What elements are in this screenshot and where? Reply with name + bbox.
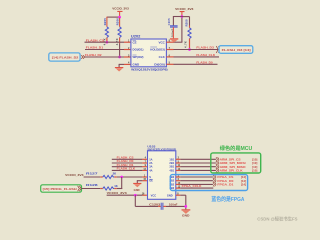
svg-text:GND: GND — [134, 189, 140, 192]
svg-text:3A: 3A — [149, 165, 152, 169]
svg-text:FPGA_D1: FPGA_D1 — [217, 183, 233, 187]
wire resistor A top lead — [106, 17, 108, 27]
wire power-left branch — [107, 16, 120, 18]
wire cap to gnd junction — [163, 205, 166, 207]
svg-text:FLASH_D1: FLASH_D1 — [86, 46, 104, 50]
svg-text:FLASH_CS: FLASH_CS — [86, 38, 105, 42]
svg-text:R127: R127 — [86, 172, 98, 176]
resistor R127 — [86, 172, 116, 179]
wire resistor B bottom lead to row3 — [119, 38, 121, 44]
wire 3B2 to FPGA_D1 — [176, 183, 181, 185]
svg-text:4A: 4A — [149, 168, 152, 172]
wire PROG_FLASH net — [82, 188, 100, 190]
svg-text:CE: CE — [133, 40, 137, 44]
port PROG_FLASH — [41, 185, 82, 192]
svg-text:FLASH_D3 [14]: FLASH_D3 [14] — [222, 48, 251, 52]
wire S net — [84, 176, 101, 178]
svg-text:FLASH_CS: FLASH_CS — [117, 155, 134, 159]
svg-text:HOLD(IO3): HOLD(IO3) — [150, 48, 165, 52]
svg-text:4.7K: 4.7K — [183, 41, 187, 48]
capacitor C1203 — [149, 202, 178, 209]
svg-text:FLASH_D2: FLASH_D2 — [85, 53, 102, 57]
svg-text:VCC: VCC — [151, 193, 157, 197]
svg-text:VCCIO_3V3: VCCIO_3V3 — [112, 7, 129, 11]
resistor R205 — [102, 18, 108, 46]
wire R208 bottom to row7 — [189, 39, 191, 50]
svg-text:GND: GND — [133, 63, 141, 67]
svg-text:VCCIO_3V3: VCCIO_3V3 — [107, 191, 127, 195]
svg-text:ARM_SPI_CLK: ARM_SPI_CLK — [220, 169, 244, 173]
port FLASH_D2 — [49, 53, 85, 61]
svg-text:R208: R208 — [184, 19, 188, 26]
capacitor C205 — [167, 18, 177, 37]
port ARM_SPI_MISO — [216, 165, 257, 169]
svg-text:FPGA_CCLK: FPGA_CCLK — [182, 184, 202, 188]
pin numbers U103 right — [177, 157, 181, 196]
wire PROG to S riser — [121, 177, 123, 189]
svg-text:S: S — [149, 175, 151, 179]
svg-text:W25Q128JVSIQ(SOP8): W25Q128JVSIQ(SOP8) — [131, 67, 168, 71]
port FPGA_CS — [213, 175, 246, 179]
wire FLASH_D2 row — [85, 56, 124, 58]
ground main — [182, 209, 191, 217]
port FPGA_D0 — [213, 179, 246, 183]
node junction right power — [181, 15, 184, 18]
svg-text:GND: GND — [167, 193, 173, 197]
transistor U103 mux chip — [147, 144, 176, 199]
svg-text:R128: R128 — [86, 183, 98, 187]
svg-text:4B1: 4B1 — [169, 168, 174, 172]
node junction row7 — [188, 48, 191, 51]
wire GND pin4 — [124, 63, 131, 65]
wire OE to gnd — [142, 180, 147, 182]
svg-text:VCC: VCC — [158, 40, 165, 44]
svg-text:[14]: [14] — [241, 183, 246, 187]
resistor R128 — [86, 183, 118, 190]
svg-text:R206: R206 — [116, 18, 120, 25]
wire pin8 VCC — [166, 41, 173, 43]
svg-text:R205: R205 — [103, 18, 107, 25]
svg-text:[15] PROG_FLASH: [15] PROG_FLASH — [43, 187, 77, 191]
svg-text:FLASH_D1: FLASH_D1 — [117, 163, 134, 167]
svg-text:VCCIO_3V3: VCCIO_3V3 — [65, 173, 84, 177]
svg-text:[10]: [10] — [252, 169, 257, 173]
svg-text:FLASH_CLK: FLASH_CLK — [117, 167, 136, 171]
svg-text:[14] FLASH_D2: [14] FLASH_D2 — [52, 55, 79, 59]
port ARM_SPI_MOSI — [216, 161, 257, 165]
wire VCC drop to cap — [134, 195, 136, 206]
wire 3A FLASH_D1 — [112, 166, 143, 168]
node junction gnd — [184, 205, 187, 208]
wire 4B1 to ARM_SPI_CLK — [176, 169, 181, 171]
op-amp U202 flash chip — [131, 35, 168, 72]
svg-text:VCCIO_3V3: VCCIO_3V3 — [175, 7, 194, 11]
node junction S — [120, 176, 123, 179]
svg-text:DI(IO0): DI(IO0) — [154, 63, 165, 67]
port ARM_SPI_CLK — [216, 168, 257, 172]
pin numbers U202 right — [169, 40, 171, 65]
wire R208 top — [182, 16, 190, 18]
svg-text:1K: 1K — [114, 184, 118, 188]
port ARM_SPI_CS — [216, 157, 257, 161]
annotation blue box FPGA — [170, 175, 247, 191]
wire 2B2 to FPGA_D0 — [176, 180, 181, 182]
svg-text:1A: 1A — [149, 157, 152, 161]
svg-text:U202: U202 — [131, 35, 141, 39]
node junction row3 pullup — [118, 56, 121, 59]
svg-text:C1203: C1203 — [149, 202, 161, 206]
svg-text:FLASH_CLK: FLASH_CLK — [196, 53, 215, 57]
wire GND pin8 — [176, 194, 181, 196]
svg-text:FLASH_D0: FLASH_D0 — [117, 159, 134, 163]
resistor R206 — [115, 18, 121, 46]
svg-text:2K: 2K — [113, 172, 117, 176]
node junction VCC — [134, 194, 137, 197]
svg-text:绿色的是MCU: 绿色的是MCU — [220, 144, 253, 152]
resistor R208 — [183, 19, 191, 48]
power VCCIO_3V3 left — [112, 7, 129, 18]
wire 1B2 to FPGA_CS — [176, 176, 181, 178]
svg-text:蓝色的是FPGA: 蓝色的是FPGA — [211, 195, 244, 203]
svg-text:GND: GND — [182, 214, 190, 218]
wire 2A FLASH_D0 — [112, 162, 143, 164]
svg-text:FLASH_D0: FLASH_D0 — [196, 61, 212, 65]
wire cap to gnd — [172, 27, 174, 38]
wire 2B1 to ARM_SPI_MOSI — [176, 162, 181, 164]
svg-text:C205: C205 — [167, 18, 171, 26]
wire FLASH_CS row — [85, 41, 125, 43]
node junction row1 pullup — [106, 41, 109, 44]
svg-text:2A: 2A — [149, 161, 152, 165]
port FPGA_D1 — [213, 182, 246, 186]
wire VCC rail right — [181, 17, 183, 43]
wire 1B1 to ARM_SPI_CS — [176, 158, 181, 160]
wire FLASH_D0 row5 — [166, 63, 173, 65]
svg-text:CLK: CLK — [159, 55, 166, 59]
node junction left power — [118, 16, 121, 19]
port FLASH_D3 — [216, 46, 253, 54]
wire resistor A bottom lead — [106, 38, 108, 43]
wire cap branch — [173, 16, 182, 18]
svg-text:FLASH_D3: FLASH_D3 — [196, 46, 214, 50]
svg-text:3B1: 3B1 — [169, 165, 174, 169]
wire 4A FLASH_CLK — [112, 169, 143, 171]
wire 3B1 to ARM_SPI_MISO — [176, 166, 181, 168]
pin numbers U103 left — [142, 157, 147, 196]
wire VCC pin16 — [107, 194, 143, 196]
wire resistor B top lead — [119, 18, 121, 27]
ground u202 — [115, 67, 123, 72]
svg-text:2B1: 2B1 — [169, 161, 174, 165]
ground cap — [170, 38, 178, 42]
svg-text:WP(IO2): WP(IO2) — [133, 55, 144, 59]
pin numbers U202 left — [128, 40, 130, 65]
svg-text:DO(IO1): DO(IO1) — [133, 48, 144, 52]
wire 4B2 FPGA_CCLK — [176, 187, 181, 189]
wire FLASH_D1 row — [85, 49, 124, 51]
wire 1A FLASH_CS — [112, 158, 143, 160]
svg-text:1B1: 1B1 — [169, 157, 174, 161]
wire FLASH_D3 row7 — [166, 49, 173, 51]
ground OE — [133, 183, 141, 192]
annotation green box MCU — [211, 153, 261, 173]
svg-text:CSDN @轻狂书生FS: CSDN @轻狂书生FS — [257, 215, 297, 222]
power VCCIO_3V3 right — [175, 7, 194, 17]
wire FLASH_CLK row6 — [166, 56, 173, 58]
